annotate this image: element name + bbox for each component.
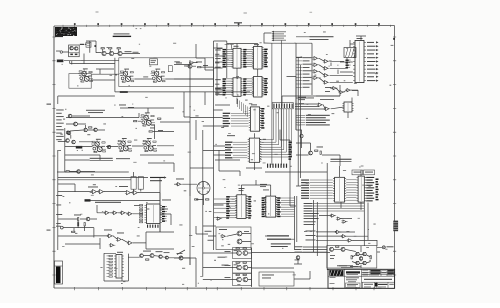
- label: [214, 204, 224, 207]
- IC U8: [249, 107, 261, 131]
- transistor Q27: [107, 145, 110, 148]
- revision bar: [55, 261, 63, 284]
- label column: [56, 109, 64, 112]
- resistor R8: [315, 150, 318, 151]
- mid-left fillers: [119, 104, 126, 107]
- wire: [57, 150, 95, 250]
- rev cell: [389, 283, 394, 286]
- resistor comb RP2: [109, 255, 112, 256]
- label row: [95, 202, 121, 203]
- comb bottom: [267, 164, 287, 168]
- pin labels U5 right: [263, 49, 268, 68]
- size cell text: [364, 283, 373, 286]
- label: [317, 146, 324, 149]
- transistor Q23: [296, 256, 300, 260]
- resistor R22: [149, 131, 152, 132]
- label: [162, 199, 171, 202]
- resistor R4: [168, 66, 172, 72]
- pair box A15: [233, 262, 252, 274]
- margin marks: [47, 104, 52, 105]
- resistor R9: [320, 151, 321, 154]
- wire: [63, 52, 72, 65]
- transistor Q7: [74, 122, 78, 126]
- sheet stamp: [393, 221, 398, 232]
- gate U14D: [312, 76, 319, 80]
- transistor Q17: [179, 256, 183, 260]
- resistor R19: [89, 127, 92, 128]
- pin rows U18-U19: [346, 179, 356, 181]
- input terminal J1: [60, 51, 62, 53]
- gate U17A: [317, 103, 324, 107]
- pin rows right to bus: [281, 197, 295, 199]
- wire: [186, 65, 196, 67]
- label: [125, 50, 132, 53]
- transistor Q3: [102, 51, 106, 55]
- sheet title text: [114, 33, 130, 34]
- transistor Q15: [159, 255, 162, 258]
- wire: [63, 221, 94, 238]
- gate U28B: [216, 217, 222, 220]
- op-amp A17: [330, 247, 334, 251]
- pin labels U6 left: [223, 78, 234, 95]
- signal arrows: [272, 31, 274, 33]
- label cluster right column upper: [298, 96, 306, 99]
- label: [174, 60, 180, 63]
- wire: [115, 91, 250, 93]
- input terminal J2: [60, 226, 63, 229]
- bus wire: [217, 43, 223, 96]
- section title CAL CHANNEL LOGIC: [331, 159, 352, 160]
- wire: [58, 219, 97, 231]
- comb RP3 top: [272, 103, 293, 109]
- op-amp A4 cluster: [91, 139, 106, 153]
- label: [222, 264, 229, 267]
- label: [262, 274, 274, 277]
- resistor network RN1: [344, 48, 356, 58]
- comparator box: [216, 227, 251, 250]
- gate input labels: [303, 56, 312, 59]
- from-label rows: [150, 177, 164, 178]
- wire: [190, 60, 230, 276]
- signal labels: [295, 245, 303, 248]
- label U8: [251, 103, 257, 106]
- label U5: [254, 43, 259, 46]
- transistor Q28: [86, 217, 90, 221]
- label underline: [90, 158, 113, 159]
- label column U8: [223, 113, 231, 114]
- gate U20B: [336, 217, 342, 220]
- contact marks: [70, 54, 73, 56]
- pin rows right U10: [260, 139, 262, 141]
- transistor Q4: [109, 51, 113, 55]
- pin labels U23 right: [276, 197, 281, 217]
- op-amp A15 pair: [237, 265, 242, 270]
- transistor Q21: [356, 261, 359, 264]
- pin labels U22 right: [246, 196, 251, 219]
- wire: [296, 96, 340, 100]
- wire: [214, 44, 258, 69]
- IC U18: [333, 177, 346, 202]
- wire: [282, 57, 296, 130]
- wire: [296, 130, 302, 148]
- gate U30A: [331, 87, 337, 90]
- gate U24: [176, 183, 182, 186]
- gate U28: [220, 235, 226, 238]
- pin labels U7 right: [263, 78, 268, 95]
- transistor Q29: [188, 64, 192, 68]
- IC U19: [357, 176, 366, 202]
- op-amp A8: [91, 190, 98, 194]
- comb left of U13: [346, 60, 351, 69]
- REV text above border: [234, 22, 242, 23]
- resistor R11: [206, 199, 209, 200]
- resistor R20: [190, 62, 193, 63]
- gate U30B: [338, 91, 344, 94]
- comb right of U10: [289, 142, 292, 160]
- signal labels: [306, 115, 330, 116]
- IC U6: [231, 78, 242, 97]
- centre cell text: [346, 276, 359, 279]
- field cells row1: [362, 269, 368, 272]
- gate U15B: [323, 67, 330, 71]
- bus wires: [304, 202, 313, 205]
- label: [295, 259, 300, 262]
- label: [218, 256, 226, 259]
- labels: [225, 250, 231, 253]
- gate U21C: [347, 239, 353, 242]
- capacitor C3: [131, 177, 136, 190]
- transistor Q9: [66, 139, 70, 143]
- label: [176, 178, 184, 181]
- comb below U26: [147, 225, 159, 228]
- transistor Q19: [363, 252, 366, 255]
- test point TP2: [85, 199, 91, 201]
- comb U23 left: [262, 197, 267, 217]
- wire: [296, 57, 353, 96]
- transistor Q12: [300, 134, 303, 137]
- wire: [97, 205, 143, 214]
- resistor R10: [195, 199, 198, 200]
- IC U16: [342, 102, 353, 112]
- transistor Q13: [140, 254, 144, 258]
- op-amp A10: [125, 191, 132, 195]
- wire: [208, 234, 251, 242]
- op-amp A1 cluster: [78, 68, 93, 82]
- pin labels U4 left: [223, 49, 234, 68]
- wire: [58, 108, 174, 192]
- wire: [94, 232, 174, 249]
- resistor R16: [336, 246, 339, 247]
- wire: [296, 166, 361, 210]
- transistor Q10: [72, 140, 76, 144]
- drawing title text: [364, 279, 392, 280]
- ground: [120, 91, 128, 93]
- size letter D: [375, 283, 378, 287]
- left cell text: [330, 276, 336, 279]
- capacitor C4: [138, 177, 143, 190]
- resistor R15: [146, 259, 149, 260]
- wire: [203, 133, 255, 170]
- gate U21A: [335, 230, 341, 233]
- transistor Q22: [363, 261, 366, 264]
- gate U25A: [104, 211, 111, 215]
- bottom-left extra wires: [58, 236, 100, 249]
- field cells row3: [362, 274, 368, 277]
- label 600 ohm: [57, 60, 64, 63]
- IC U23: [264, 196, 277, 217]
- wire: [65, 108, 174, 147]
- op-amp A16 pair: [237, 277, 242, 282]
- wire: [314, 163, 369, 270]
- transistor Q5: [118, 51, 122, 55]
- gate U15A: [323, 60, 330, 64]
- misc reference designator specks: [58, 32, 393, 286]
- wire: [58, 54, 214, 173]
- wire: [280, 130, 296, 207]
- pair box A14: [233, 248, 252, 259]
- wire: [134, 206, 171, 226]
- outer labels: [215, 49, 221, 52]
- wire: [91, 58, 119, 92]
- wire: [261, 109, 291, 157]
- wire: [196, 226, 208, 234]
- wire: [265, 236, 295, 239]
- wire: [294, 247, 327, 264]
- transistor Q18: [356, 252, 359, 255]
- relay K1 input box: [69, 45, 80, 57]
- gate U27A: [107, 234, 114, 238]
- op-amp A2 cluster: [119, 69, 134, 83]
- feedback loop wire: [69, 74, 91, 89]
- labels near comparator: [205, 230, 212, 233]
- IC U26: [145, 204, 163, 224]
- IC U5: [252, 47, 264, 70]
- labels above U23: [260, 183, 267, 186]
- wire: [160, 79, 327, 232]
- gate U25C: [120, 211, 127, 215]
- label lines: [310, 36, 334, 37]
- box: [259, 272, 294, 286]
- label: [119, 185, 128, 188]
- test point TP1: [76, 146, 83, 149]
- gate U25D: [127, 212, 134, 216]
- IC U29: [114, 255, 124, 279]
- drawing number: [378, 284, 388, 285]
- rotary switch S1: [197, 182, 210, 195]
- wire: [174, 184, 204, 205]
- transistor Q8: [67, 131, 71, 135]
- op-amp A18: [341, 247, 345, 251]
- transistor Q26: [94, 128, 97, 131]
- resistor R3: [117, 48, 120, 49]
- wire: [294, 271, 310, 279]
- label U13: [357, 37, 363, 40]
- label cluster top centre: [176, 62, 182, 65]
- feedback loop wire: [119, 58, 214, 87]
- gate U30C: [345, 89, 351, 92]
- op-amp A9: [98, 190, 105, 194]
- transistor Q24: [66, 131, 69, 134]
- wire: [135, 41, 227, 250]
- pull-up stubs: [225, 45, 234, 49]
- op-amp A7 cluster: [140, 112, 155, 126]
- pin labels U19 right: [366, 177, 374, 178]
- wire: [334, 246, 371, 268]
- label: [104, 229, 112, 232]
- gate U20A: [330, 214, 336, 217]
- wire: [203, 248, 330, 287]
- title block grid: [328, 269, 395, 288]
- outer labels: [215, 78, 221, 81]
- labels: [337, 264, 347, 267]
- wire: [330, 88, 358, 96]
- resistor R23: [84, 223, 85, 226]
- signal labels: [306, 230, 316, 233]
- transistor Q6: [68, 114, 72, 118]
- diode CR1: [309, 151, 313, 155]
- pair box A16: [233, 274, 252, 286]
- field cells row2: [362, 272, 368, 275]
- wire: [264, 33, 272, 44]
- notes block (dense revision text): [55, 27, 77, 36]
- label: [219, 228, 227, 231]
- gate U15C: [323, 74, 330, 78]
- wire: [215, 48, 258, 104]
- IC U22: [235, 195, 247, 219]
- label block: [86, 109, 105, 112]
- gate U14B: [312, 63, 319, 67]
- wire: [174, 44, 214, 70]
- comb right far: [376, 179, 379, 201]
- resistor R21: [198, 67, 201, 68]
- label U4: [234, 45, 239, 48]
- label: [143, 250, 151, 253]
- capacitor C1: [86, 42, 91, 47]
- gate U15D: [323, 81, 330, 85]
- IC U7: [252, 77, 264, 98]
- transistor Q16: [165, 256, 168, 259]
- wire: [295, 98, 352, 119]
- resistor R6: [158, 118, 161, 119]
- gate U17B: [324, 107, 331, 111]
- op-amp A5 cluster: [117, 138, 132, 152]
- resistor R13: [78, 223, 79, 226]
- gate U25B: [112, 211, 119, 215]
- wire: [104, 253, 128, 281]
- wire: [122, 257, 140, 281]
- IC U4: [231, 48, 242, 68]
- label column U10: [225, 142, 233, 143]
- company logo: [329, 270, 343, 276]
- transistor Q1: [70, 47, 73, 50]
- bottom row small text: [364, 286, 371, 289]
- label block lower left: [215, 88, 223, 91]
- label: [177, 252, 183, 255]
- wire bus into U8: [238, 99, 248, 117]
- gate U21B: [341, 235, 347, 238]
- wire: [106, 121, 174, 146]
- resistor R5: [134, 121, 137, 122]
- relay coil K1: [86, 41, 102, 53]
- wire: [316, 232, 377, 246]
- resistor R7: [66, 171, 69, 172]
- resistor R2: [109, 48, 112, 49]
- resistor combs U26: [140, 205, 143, 206]
- output connector: [382, 246, 385, 249]
- gate U14A: [312, 57, 319, 61]
- resistor R12: [78, 218, 79, 221]
- text above title block: [339, 264, 353, 267]
- right mid extra rows: [299, 102, 304, 105]
- transistor Q14: [150, 254, 154, 258]
- wire: [58, 141, 93, 143]
- op-amp A13: [237, 239, 242, 244]
- label: [88, 186, 98, 189]
- IC U10: [248, 138, 262, 162]
- title block frame: [328, 269, 395, 288]
- comb right of U26: [162, 206, 167, 222]
- resistor R17: [351, 256, 352, 259]
- wire: [70, 125, 105, 131]
- label: [227, 134, 235, 137]
- pin labels U22 left: [226, 196, 236, 219]
- op-amp A11: [132, 191, 139, 195]
- wire: [58, 172, 160, 193]
- wire: [196, 92, 262, 176]
- resistor R14: [72, 231, 75, 232]
- company name band: [346, 271, 360, 273]
- signal name rows: [267, 235, 289, 236]
- transistor Q20: [359, 257, 362, 260]
- wire rows left: [214, 198, 226, 200]
- bus wires vertical: [272, 40, 282, 165]
- transistor Q25: [84, 128, 87, 131]
- gate U14C: [312, 70, 319, 74]
- transistor Q11: [77, 170, 81, 174]
- wire: [58, 177, 160, 232]
- wire: [143, 256, 190, 265]
- gate U27C: [127, 241, 134, 245]
- label column lower left: [56, 194, 62, 197]
- label U29: [117, 251, 123, 254]
- wire: [264, 43, 296, 130]
- wire: [91, 193, 161, 223]
- code ident box: [346, 283, 361, 287]
- capacitor C2: [150, 59, 158, 65]
- label arrow: [80, 44, 84, 45]
- op-amp A12: [237, 231, 242, 236]
- transistor Q2: [75, 47, 78, 50]
- op-amp A6 cluster: [142, 138, 157, 152]
- labels above U22: [239, 187, 245, 190]
- resistor R18: [370, 256, 371, 259]
- wire: [103, 49, 140, 54]
- gate U27D: [109, 244, 115, 247]
- output stage box: [327, 246, 377, 269]
- pin labels U4 right / U5 left: [243, 49, 253, 68]
- pin labels U6 right / U7 left: [243, 78, 253, 95]
- label: [325, 86, 331, 89]
- resistor R1: [101, 48, 104, 49]
- wire: [241, 180, 296, 250]
- label: [143, 76, 148, 79]
- bus wire: [294, 43, 312, 186]
- gate U27B: [116, 238, 123, 242]
- wire: [65, 116, 90, 172]
- label boxes: [352, 170, 363, 175]
- op-amp A14 pair: [237, 251, 242, 256]
- label rows lower: [304, 220, 316, 223]
